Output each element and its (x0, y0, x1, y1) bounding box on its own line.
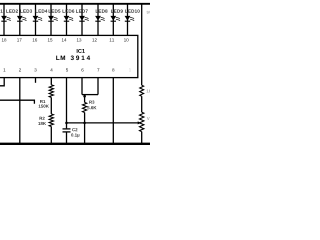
wiper arrowhead (138, 121, 142, 124)
LED7 label (76, 10, 88, 13)
LED9 label (111, 9, 123, 12)
pin 10 label (124, 38, 128, 41)
wire +V top supply rail (0, 3, 150, 5)
R3 designator label (89, 101, 94, 104)
node junction R3/wiper line (83, 122, 86, 125)
pin 4 label (50, 68, 52, 71)
LED LED9 (110, 16, 120, 21)
wire R1 to R2 (50, 97, 52, 114)
resistor R4 on supply line (140, 85, 144, 96)
wire pin6 stub (81, 78, 83, 95)
pin 16 label (33, 38, 37, 41)
wire R2 to ground (50, 127, 52, 144)
wire LED9 anode column (112, 4, 114, 36)
wire R3 to ground (84, 113, 86, 144)
wire input line from left edge across pin2 column, corner down (cut off) (0, 100, 34, 104)
R2 value label 18K (38, 122, 46, 125)
wire LED2 anode column (3, 4, 5, 36)
pin 11 label (110, 38, 114, 41)
capacitor C2 0.1u (63, 123, 71, 144)
wire +9V supply down right side (141, 4, 143, 85)
C2 value label 0.1u (71, 133, 79, 137)
node pin5/C2/wiper junction (65, 122, 68, 125)
wire LED4 anode column (35, 4, 37, 36)
+9V label cut at right edge (147, 11, 152, 14)
wire R4 to pot (141, 96, 143, 112)
wire bracket to R3 (84, 95, 86, 103)
pin 12 label (92, 38, 96, 41)
resistor R2 18K (49, 114, 53, 127)
LED LED6 (64, 16, 74, 21)
wire bracket joining pin6 and pin7 (82, 94, 98, 96)
pin 1 label (3, 68, 5, 71)
node junction below bracket (83, 95, 86, 98)
IC U1: IC1 LM 3914 body (0, 35, 138, 77)
LED LED2 (1, 16, 11, 21)
LM 3914 part number (56, 56, 65, 60)
pin 17 label (17, 38, 21, 41)
wire LED8 anode column (97, 4, 99, 36)
LED LED10 (125, 16, 135, 21)
wire LED7 anode column (81, 4, 83, 36)
pin 18 label (2, 38, 6, 41)
wire pin3 stub (35, 78, 37, 83)
faint ghost mark inside IC bottom-right (129, 68, 131, 71)
LED8 label (96, 9, 108, 12)
pin 7 label (97, 68, 99, 71)
pin 14 label (62, 38, 67, 41)
resistor R1 150K (49, 85, 53, 98)
pin 13 label (77, 38, 81, 41)
LED5 label (49, 10, 61, 13)
wire pin2 column to ground (19, 78, 21, 144)
pin 6 label (81, 68, 83, 71)
LED LED5 (48, 16, 58, 21)
pin 15 label (48, 38, 52, 41)
pin 8 label (112, 68, 114, 71)
LED6 label (63, 9, 75, 12)
LED2 label (6, 9, 18, 12)
C2 designator label (72, 128, 77, 131)
R1 value label 150K (39, 105, 49, 108)
pin 5 label (66, 68, 68, 71)
wire pot to ground (141, 132, 143, 144)
pin 3 label (34, 68, 36, 71)
wire 0V bottom ground rail (0, 143, 150, 145)
wire pin7 stub (97, 78, 99, 95)
wire pin8 column to ground (112, 78, 114, 144)
wire pin1 exits to cut-off LED1 at left (0, 78, 4, 86)
R4 value label (cut off at right edge) (147, 89, 152, 92)
LED1 label (cut off at left edge) (0, 10, 2, 13)
R1 designator label (40, 100, 45, 103)
potentiometer VR1 (140, 112, 144, 131)
LED3 label (20, 9, 32, 12)
wire LED3 anode column (19, 4, 21, 36)
wire pin4 column (50, 78, 52, 85)
VR1 label (cut off at right edge) (147, 117, 150, 120)
resistor R3 5.6K (83, 102, 87, 112)
IC1 designator (77, 49, 85, 53)
LED LED4 (33, 16, 43, 21)
LED LED8 (95, 16, 105, 21)
R2 designator label (39, 117, 44, 120)
wire pin5 column down to C2 junction (66, 78, 68, 123)
R3 value label 5.6K (87, 106, 96, 109)
wire LED10 anode column (127, 4, 129, 36)
wire LED5 anode column (50, 4, 52, 36)
LED LED3 (17, 16, 27, 21)
pin 2 label (19, 68, 21, 71)
LED10 label (125, 9, 139, 12)
LED4 label (36, 10, 48, 13)
wire LED6 anode column (66, 4, 68, 36)
wire wiper line from C2 node to potentiometer (67, 122, 139, 124)
LED LED7 (79, 16, 89, 21)
